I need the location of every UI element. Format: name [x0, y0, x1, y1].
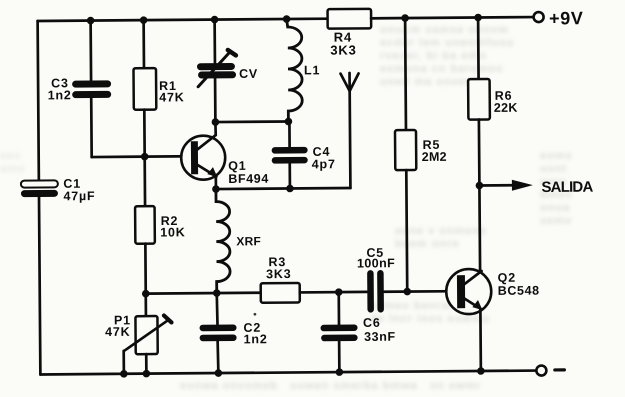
inductor XRF	[216, 189, 261, 293]
wire emitter-antenna horizontal	[216, 188, 350, 189]
wire Q2 emitter down	[479, 309, 482, 371]
node rail P1 wiper	[120, 370, 128, 378]
svg-text:2M2: 2M2	[422, 150, 447, 164]
wire bottom rail	[40, 371, 536, 375]
node C2 rail	[215, 369, 223, 377]
node top e	[401, 14, 409, 22]
wire P1 bottom lead	[145, 354, 148, 373]
capacitor C3	[48, 76, 112, 102]
capacitor C4	[271, 121, 335, 189]
node C4 bottom	[286, 185, 294, 193]
node C6 rail	[336, 368, 344, 376]
svg-text:L1: L1	[304, 63, 320, 77]
svg-text:22K: 22K	[494, 101, 518, 115]
wire R1 top lead	[142, 20, 145, 68]
node top c	[211, 16, 219, 24]
wire C3 to base	[90, 98, 93, 157]
resistor R6	[468, 79, 518, 120]
resistor R1	[133, 68, 184, 110]
wire R6 top lead	[477, 18, 480, 79]
wire C3 top lead	[89, 21, 92, 81]
wire R6 bottom to Q2 collector	[479, 120, 480, 271]
terminal +9V	[534, 12, 544, 22]
node Q2 emitter rail	[477, 367, 485, 375]
capacitor C5	[357, 246, 396, 310]
node salida	[476, 182, 484, 190]
svg-text:BC548: BC548	[498, 284, 540, 298]
wire R1 bottom to R2	[143, 110, 146, 206]
wire left border upper	[38, 21, 39, 180]
node XRF bottom	[213, 289, 221, 297]
svg-text:47µF: 47µF	[63, 189, 95, 203]
capacitor C6	[320, 292, 396, 373]
svg-text:XRF: XRF	[236, 234, 261, 248]
wire CV top lead	[213, 20, 216, 64]
node top d	[283, 15, 291, 23]
svg-text:3K3: 3K3	[266, 267, 291, 281]
potentiometer P1	[105, 313, 172, 355]
svg-text:4p7: 4p7	[312, 157, 336, 171]
speck noise dot	[254, 313, 257, 316]
wire R3 to C5	[300, 291, 367, 294]
resistor R3	[260, 255, 299, 303]
node rail P1 body	[143, 370, 151, 378]
wire junction to L1 bottom	[215, 120, 288, 123]
svg-text:47K: 47K	[105, 325, 130, 339]
faint bleed-through text from reverse page	[380, 24, 514, 89]
node top a	[87, 17, 95, 25]
capacitor C2	[199, 293, 268, 374]
wire R5 bottom lead	[405, 170, 409, 291]
wire R5 top lead	[404, 18, 408, 130]
wire Q1 base horizontal	[92, 155, 192, 158]
svg-text:3K3: 3K3	[330, 42, 356, 57]
capacitor C1	[21, 177, 96, 204]
wire P1 wiper down	[122, 351, 125, 374]
wire mid horizontal left	[146, 291, 261, 295]
variable capacitor CV	[197, 50, 258, 87]
svg-text:33nF: 33nF	[364, 330, 396, 344]
wire salida arrow	[479, 184, 513, 187]
node emitter junction	[212, 185, 220, 193]
resistor R4	[328, 9, 372, 29]
inductor L1	[287, 19, 321, 122]
wire CV bottom lead	[214, 79, 217, 122]
node collector junction	[212, 118, 220, 126]
transistor Q2	[446, 269, 540, 315]
svg-text:1n2: 1n2	[48, 88, 72, 102]
transistor Q1	[181, 122, 269, 190]
resistor R5	[395, 130, 447, 170]
antenna	[341, 73, 360, 188]
svg-text:BF494: BF494	[228, 172, 269, 186]
svg-text:+9V: +9V	[549, 8, 583, 28]
svg-text:C6: C6	[363, 316, 381, 330]
resistor R2	[135, 206, 186, 244]
terminal minus	[536, 365, 546, 375]
wire left border lower	[39, 197, 40, 374]
node top b	[140, 16, 148, 24]
node C6 branch	[335, 288, 343, 296]
node mid left	[142, 290, 150, 298]
wire C5 to Q2 base	[384, 290, 456, 293]
node top f	[474, 14, 482, 22]
svg-text:SALIDA: SALIDA	[541, 179, 593, 196]
node base R1	[141, 153, 149, 161]
minus sign	[555, 368, 564, 371]
svg-text:Q2: Q2	[498, 271, 516, 285]
svg-text:100nF: 100nF	[357, 256, 395, 270]
svg-text:CV: CV	[239, 67, 258, 81]
wire R2 bottom to P1	[144, 244, 147, 316]
svg-text:Q1: Q1	[228, 159, 246, 173]
svg-text:10K: 10K	[160, 225, 185, 239]
node L1 bottom	[285, 118, 293, 126]
svg-text:47K: 47K	[159, 90, 184, 104]
node R5 bottom junction	[403, 288, 411, 296]
svg-text:1n2: 1n2	[244, 332, 268, 346]
salida arrowhead	[512, 180, 533, 191]
wire top rail left segment	[38, 19, 328, 21]
wire top rail right segment	[371, 17, 533, 18]
